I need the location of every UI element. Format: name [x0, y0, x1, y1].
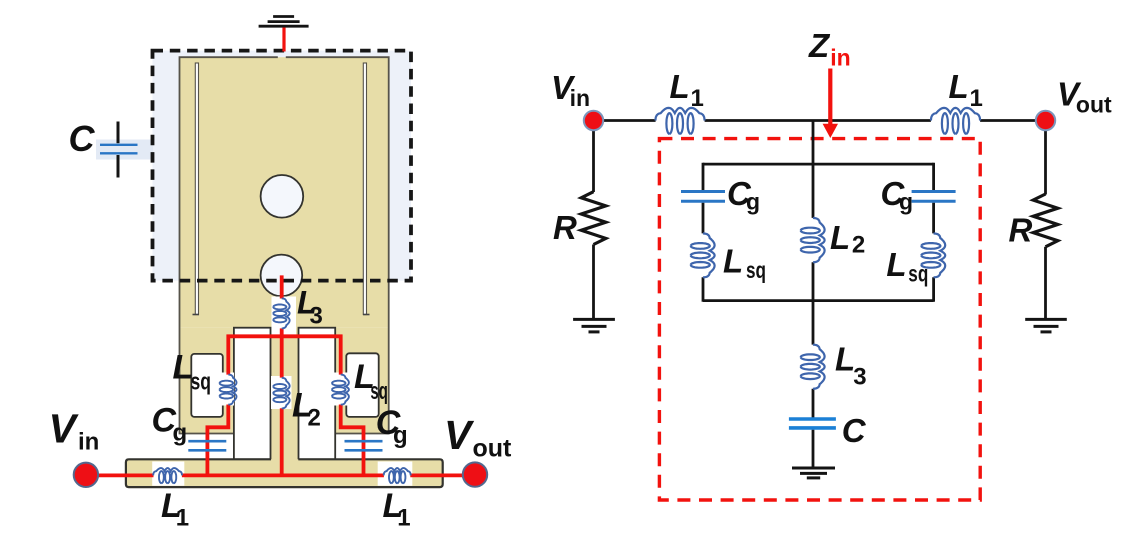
- ground (top): [259, 17, 309, 27]
- svg-text:1: 1: [397, 505, 410, 532]
- svg-text:2: 2: [308, 405, 321, 432]
- L1 right clearance patch: [378, 462, 413, 486]
- microstrip center strip: [271, 328, 298, 461]
- capacitor C (layout): [100, 122, 138, 178]
- inductor L1 right: [931, 108, 980, 134]
- node Vout: [1036, 111, 1055, 130]
- wire Vout drop: [1044, 121, 1047, 195]
- wire Vin drop: [592, 121, 595, 193]
- Zin arrow: [823, 69, 838, 139]
- svg-text:L: L: [670, 68, 690, 105]
- L3 clearance patch: [272, 297, 297, 337]
- inductor L1 right (layout): [384, 468, 411, 483]
- capacitor C: [789, 419, 836, 428]
- svg-text:R: R: [1009, 211, 1033, 248]
- Lsq right clearance patch: [330, 373, 348, 406]
- cutout hole left: [234, 328, 271, 460]
- svg-text:in: in: [830, 44, 850, 70]
- inductor Lsq left: [691, 233, 715, 277]
- wire Lsq left branch: [207, 335, 228, 478]
- svg-text:out: out: [1076, 92, 1112, 118]
- svg-text:L: L: [835, 341, 855, 378]
- svg-text:g: g: [173, 420, 188, 447]
- microstrip patch (top plate): [180, 57, 389, 328]
- inductor L3: [801, 345, 825, 389]
- via hole lower: [261, 255, 303, 297]
- wire left branch: [702, 163, 705, 302]
- wire center vertical: [280, 275, 284, 477]
- cutout hole right: [299, 328, 336, 460]
- inductor L2 (layout): [273, 378, 289, 409]
- microstrip right column: [335, 328, 389, 434]
- wire ground stub: [282, 28, 285, 52]
- svg-text:g: g: [746, 189, 760, 215]
- svg-text:sq: sq: [908, 261, 928, 287]
- svg-text:1: 1: [691, 85, 704, 112]
- wire right branch: [932, 163, 935, 302]
- inductor L2: [801, 218, 825, 262]
- slot left: [195, 63, 198, 315]
- svg-text:g: g: [899, 189, 913, 215]
- svg-text:L: L: [886, 246, 906, 283]
- svg-text:V: V: [444, 412, 475, 458]
- ground (left): [573, 318, 615, 321]
- capacitor Cg left: [681, 192, 725, 202]
- red dashed Zin box: [659, 139, 980, 500]
- svg-text:sq: sq: [746, 257, 766, 283]
- inductor Lsq right (layout): [332, 375, 349, 405]
- wire parallel-section top: [703, 163, 934, 166]
- Lsq left clearance patch: [217, 373, 235, 406]
- dashed enclosure box: [153, 51, 412, 281]
- wire center junction: [812, 121, 815, 166]
- ground (center): [792, 467, 835, 470]
- svg-text:C: C: [842, 412, 867, 449]
- capacitor C tint band: [96, 140, 153, 160]
- ground (right): [1025, 318, 1067, 321]
- wire center branch upper: [812, 164, 815, 302]
- inductor L3 (layout): [273, 298, 289, 328]
- svg-text:1: 1: [176, 505, 189, 532]
- resistor R left: [581, 192, 606, 245]
- node Vout terminal (layout): [463, 462, 487, 486]
- square-spiral hole right: [346, 353, 378, 417]
- wire R left to ground: [592, 245, 595, 320]
- wire main horizontal: [594, 119, 1046, 122]
- svg-text:L: L: [723, 243, 743, 280]
- svg-text:Z: Z: [808, 27, 831, 64]
- wire parallel-section bottom: [703, 299, 934, 302]
- wire center branch lower: [812, 301, 815, 469]
- via hole upper: [261, 175, 304, 218]
- svg-text:3: 3: [853, 363, 866, 390]
- inductor L1 left: [655, 108, 704, 134]
- resistor R right: [1033, 194, 1058, 247]
- capacitor Cg left (layout): [188, 441, 226, 450]
- square-spiral hole left: [191, 354, 223, 417]
- slot right: [363, 63, 366, 315]
- wire R right to ground: [1044, 247, 1047, 320]
- L1 left clearance patch: [152, 462, 184, 486]
- wire feed horizontal: [86, 473, 475, 477]
- svg-text:R: R: [553, 209, 577, 246]
- svg-text:C: C: [69, 118, 96, 159]
- svg-text:out: out: [473, 435, 513, 463]
- L2 clearance patch: [271, 376, 292, 409]
- svg-text:2: 2: [852, 232, 865, 259]
- svg-text:in: in: [78, 429, 99, 456]
- svg-text:V: V: [49, 406, 80, 452]
- node Vin: [584, 111, 603, 130]
- microstrip left column: [180, 328, 234, 434]
- wire branch bus: [227, 334, 343, 338]
- inductor Lsq right: [921, 233, 945, 277]
- capacitor Cg right (layout): [345, 441, 383, 450]
- svg-text:in: in: [570, 85, 590, 111]
- node Vin terminal (layout): [74, 463, 98, 487]
- inductor L1 left (layout): [153, 468, 182, 483]
- dashed enclosure background: [153, 51, 412, 281]
- patch outline: [180, 57, 389, 433]
- inductor Lsq left (layout): [220, 375, 237, 405]
- svg-text:1: 1: [970, 85, 983, 112]
- svg-text:sq: sq: [191, 368, 212, 395]
- svg-text:sq: sq: [370, 378, 388, 405]
- feed line bar: [126, 459, 443, 487]
- svg-text:L: L: [949, 68, 969, 105]
- svg-text:L: L: [830, 219, 850, 256]
- wire Lsq right branch: [341, 335, 364, 478]
- svg-text:g: g: [393, 422, 408, 449]
- svg-text:3: 3: [310, 303, 323, 330]
- capacitor Cg right: [912, 192, 956, 202]
